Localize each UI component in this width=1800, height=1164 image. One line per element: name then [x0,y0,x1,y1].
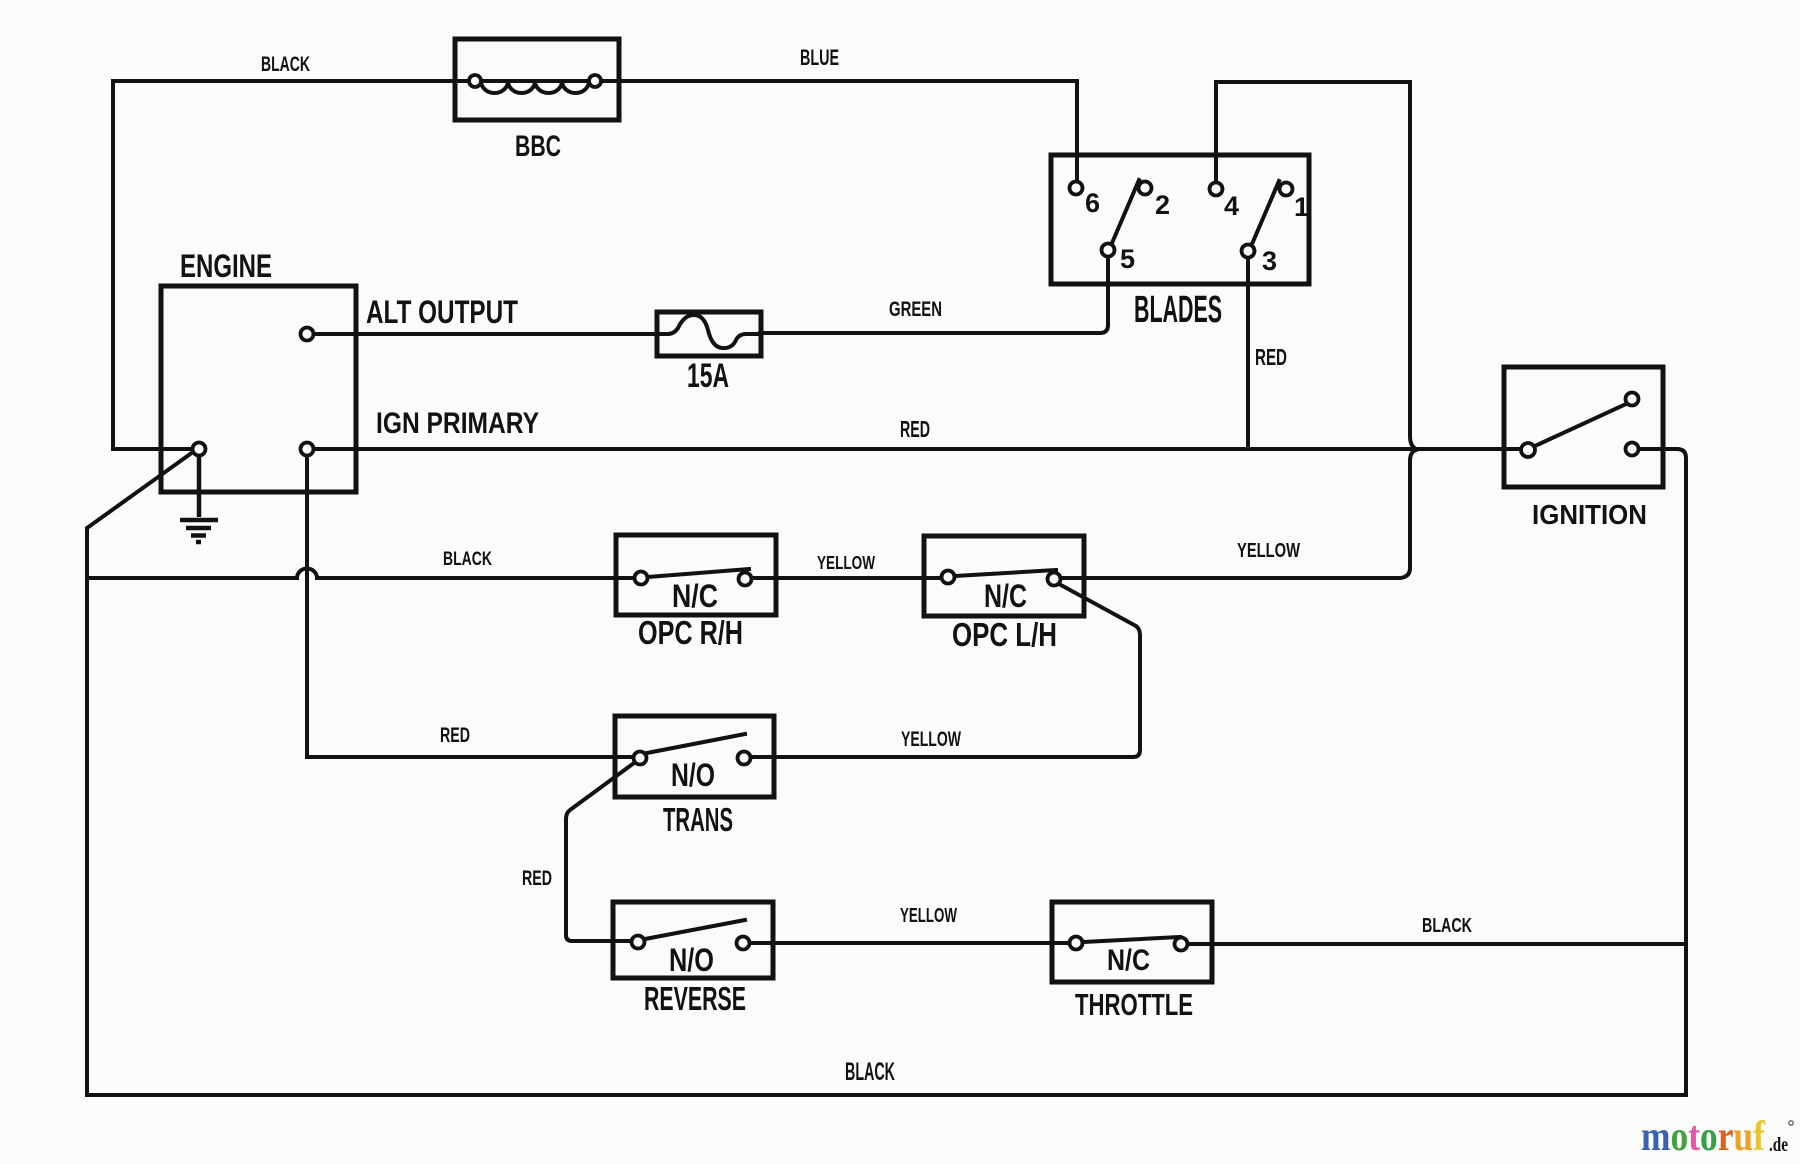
blades switch arm 5-2 [1112,180,1139,243]
BBC left terminal [469,75,481,87]
blades pin 3 [1242,245,1255,258]
wire black throttle to right vertical [1187,942,1686,946]
wire green from fuse to blades pin 5 [760,257,1108,333]
OPC R/H box [616,535,776,615]
motoruf logo [1641,1113,1766,1159]
OPC R/H left terminal [635,572,648,585]
svg-text:BLACK: BLACK [261,53,310,76]
BBC box [455,39,619,120]
wire alt output to fuse [313,332,658,336]
ground symbol [197,456,202,517]
wire black top from engine area to BBC and blue to blades pin 6 [113,81,1077,449]
terminal alt output [301,328,314,341]
wire red from blades pin 3 down to ign primary [1246,258,1250,449]
svg-text:RED: RED [1255,344,1287,370]
svg-text:15A: 15A [687,357,729,395]
throttle box [1052,902,1212,982]
svg-text:BLUE: BLUE [800,45,839,70]
BBC right terminal [589,75,601,87]
blades pin 2 [1139,182,1152,195]
wire yellow reverse to throttle [750,941,1069,945]
svg-text:N/O: N/O [669,942,714,978]
OPC R/H right terminal [739,573,752,586]
svg-text:OPC L/H: OPC L/H [952,616,1057,653]
svg-text:3: 3 [1262,246,1277,276]
OPC L/H right terminal [1048,573,1061,586]
svg-text:4: 4 [1224,191,1239,221]
svg-text:YELLOW: YELLOW [901,728,961,751]
ignition box [1504,367,1663,487]
fuse 15A box [657,312,761,356]
engine box [161,286,356,492]
svg-text:REVERSE: REVERSE [644,980,746,1017]
trans switch arm [647,734,745,753]
svg-text:YELLOW: YELLOW [817,553,875,573]
blades pin 5 [1102,244,1115,257]
svg-text:2: 2 [1155,190,1170,220]
reverse right terminal [737,937,750,950]
svg-text:IGN PRIMARY: IGN PRIMARY [376,407,539,440]
svg-text:THROTTLE: THROTTLE [1075,987,1193,1022]
svg-text:YELLOW: YELLOW [900,905,957,927]
svg-text:TRANS: TRANS [663,801,733,838]
svg-text:N/C: N/C [984,578,1027,614]
svg-text:GREEN: GREEN [889,298,942,321]
ignition left terminal [1521,443,1535,457]
terminal ign primary [301,443,314,456]
svg-text:YELLOW: YELLOW [1237,540,1300,562]
svg-text:1: 1 [1294,192,1309,222]
svg-text:6: 6 [1085,188,1100,218]
svg-text:BBC: BBC [515,130,561,163]
svg-text:ENGINE: ENGINE [180,248,272,284]
ignition top right terminal [1626,393,1639,406]
blades pin 6 [1070,182,1083,195]
svg-text:BLACK: BLACK [845,1058,895,1086]
trans left terminal [634,752,647,765]
svg-text:BLACK: BLACK [1422,915,1472,937]
svg-text:motoruf: motoruf [1641,1113,1766,1159]
reverse switch arm [645,920,745,939]
terminal engine ground [193,443,206,456]
BBC coil [481,81,589,93]
svg-text:RED: RED [522,867,552,890]
svg-text:RED: RED [900,416,930,442]
svg-text:RED: RED [440,724,470,747]
motoruf registered mark [1789,1121,1793,1125]
svg-text:IGNITION: IGNITION [1532,499,1647,530]
svg-text:BLADES: BLADES [1134,289,1222,331]
wire yellow from OPC L/H right terminal up to red wire junction [1061,450,1416,578]
wire ign primary red from engine to ignition [313,447,1521,451]
wire red trans diagonal down to reverse [566,763,634,941]
wire blades pin4 up over and down to red wire junction [1216,82,1416,449]
throttle switch arm [1083,937,1180,942]
svg-text:OPC R/H: OPC R/H [638,614,743,651]
OPC L/H box [924,536,1084,616]
wire yellow between OPC R/H and OPC L/H [752,576,941,580]
OPC R/H switch arm [648,569,749,577]
svg-text:N/C: N/C [1107,944,1150,977]
svg-text:N/O: N/O [671,757,715,793]
trans box [615,716,774,797]
wire ground diagonal, left vertical, bottom black wire, right vertical to ignition [87,449,1686,1095]
svg-text:ALT OUTPUT: ALT OUTPUT [366,294,518,330]
blades pin 4 [1210,183,1223,196]
wire black engine to OPC R/H with hop over red vertical [87,569,634,579]
wire red vertical from ign primary terminal down to trans [307,456,633,757]
OPC L/H left terminal [942,571,955,584]
ignition switch arm [1535,404,1626,446]
svg-text:.de: .de [1769,1134,1788,1156]
reverse left terminal [632,936,645,949]
reverse box [613,902,773,978]
blades switch arm 3-1 [1252,181,1279,244]
throttle right terminal [1175,938,1188,951]
throttle left terminal [1070,937,1083,950]
ignition right terminal [1626,443,1639,456]
fuse sine element [658,315,760,348]
blades pin 1 [1280,183,1293,196]
trans right terminal [738,752,751,765]
wire from OPC L/H switch arm down to trans right terminal [751,584,1140,757]
svg-text:N/C: N/C [672,578,718,614]
OPC L/H switch arm [955,570,1056,576]
svg-text:BLACK: BLACK [443,549,492,570]
svg-text:5: 5 [1120,244,1135,274]
blades box [1051,155,1309,284]
